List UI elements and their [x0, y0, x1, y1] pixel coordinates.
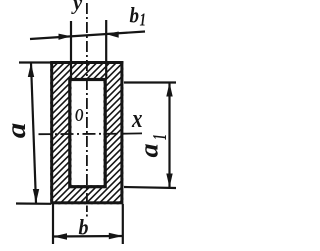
y axis tail dash below section — [86, 206, 88, 213]
svg-text:O: O — [75, 105, 84, 125]
svg-text:b: b — [79, 215, 89, 240]
hatched wall section — [0, 54, 268, 208]
a dimension line — [31, 63, 36, 203]
y axis tail dot — [86, 215, 88, 217]
a top extension line — [19, 61, 51, 63]
outer rectangle outline — [52, 63, 122, 203]
b1 right arrowhead — [106, 32, 119, 38]
x centerline axis — [39, 133, 122, 136]
a1 bottom extension line — [124, 187, 176, 188]
a1 top extension line — [124, 81, 176, 83]
a top arrowhead — [28, 63, 34, 77]
y centerline axis — [86, 3, 88, 204]
b left extension line — [52, 204, 54, 244]
a1 top arrowhead — [166, 83, 172, 97]
svg-text:x: x — [131, 104, 142, 133]
svg-text:b: b — [130, 3, 140, 28]
b1 left arrowhead — [59, 34, 72, 40]
svg-text:a: a — [135, 144, 164, 158]
a1 bottom arrowhead — [166, 174, 172, 188]
b1 right extension line — [105, 20, 107, 79]
svg-text:y: y — [71, 0, 82, 15]
b right extension line — [122, 204, 124, 244]
a1 dimension line — [168, 83, 170, 188]
b right arrowhead — [109, 233, 123, 239]
svg-text:a: a — [1, 123, 31, 139]
b1 left extension line — [70, 21, 72, 79]
label a1 — [135, 134, 172, 158]
svg-text:1: 1 — [149, 134, 171, 140]
a bottom arrowhead — [33, 189, 39, 203]
b dimension line — [53, 235, 123, 238]
a bottom extension line — [16, 202, 51, 205]
x axis solid segment right of section — [123, 132, 142, 134]
b left arrowhead — [53, 233, 67, 239]
b1 dimension line — [30, 32, 145, 40]
inner rectangle (hole) outline — [70, 80, 105, 187]
svg-text:1: 1 — [140, 10, 147, 30]
